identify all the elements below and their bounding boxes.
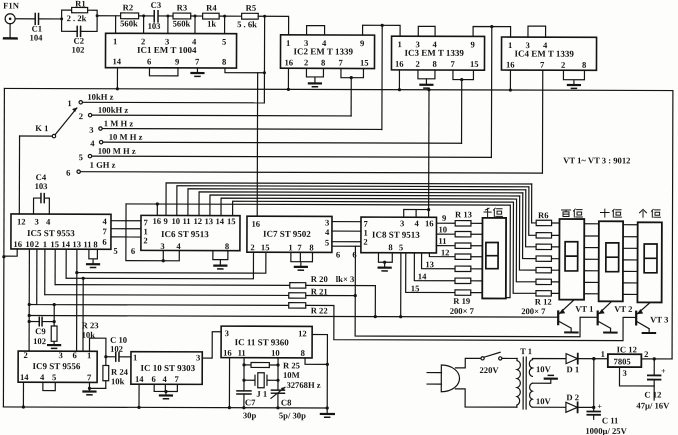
wire IC5 pin4 to IC6 pin7: [111, 220, 141, 222]
wire bundle vertical to DS1 common: [506, 205, 510, 298]
IC8 ST9513: [361, 217, 437, 253]
wire main rail y89.5: [4, 88, 672, 90]
svg-text:IC9 ST 9556: IC9 ST 9556: [33, 361, 81, 371]
svg-text:9: 9: [442, 213, 446, 223]
svg-text:10: 10: [438, 224, 447, 234]
svg-text:2: 2: [561, 60, 565, 70]
svg-text:15: 15: [411, 283, 420, 293]
svg-text:16: 16: [284, 57, 293, 67]
svg-text:D 1: D 1: [567, 364, 580, 374]
wire R22 to VT3 base: [306, 305, 637, 340]
resistor R17: [455, 266, 471, 271]
wire R3 to R4: [191, 15, 203, 18]
wire IC11 pin10 vertical: [276, 358, 279, 390]
svg-text:R5: R5: [246, 3, 257, 13]
wire R2 to C3: [139, 14, 154, 17]
svg-text:14: 14: [215, 216, 224, 226]
wire IC1 pin8 to node 264: [225, 68, 266, 74]
svg-text:5 . 6k: 5 . 6k: [237, 19, 257, 29]
wire IC2 pins7-15 bracket: [341, 68, 364, 79]
wire plug to switch: [456, 358, 481, 368]
wire bundle vertical to R6 row3: [526, 190, 537, 247]
svg-text:8: 8: [222, 57, 227, 67]
ground (IC10): [160, 395, 172, 398]
ground (IC3): [420, 85, 432, 88]
wire IC6 pin13 staircase: [210, 195, 520, 217]
wire row 273 (IC5.13 to IC7.15): [77, 252, 266, 273]
wire IC6 pin16 bus line: [126, 202, 510, 216]
wire IC11 pin11 vertical: [242, 358, 245, 391]
label gewei: [640, 209, 661, 217]
crystal J1 32768Hz: [244, 373, 278, 399]
wire segment bus DS2-DS3: [584, 224, 599, 294]
capacitor C8 5p/30p trimmer: [271, 387, 306, 420]
wire IC7 pin4 to IC8 pin1: [332, 230, 361, 232]
transformer T1: [517, 346, 533, 409]
display DS4 gewei (ones): [637, 222, 661, 302]
svg-text:4: 4: [90, 138, 95, 148]
wire C3 to R3: [158, 14, 173, 17]
resistor R14: [455, 231, 471, 236]
wire segment bus DS3-DS4: [623, 225, 638, 295]
wire bundle vertical to R6 row4: [523, 193, 537, 259]
svg-text:14: 14: [112, 56, 121, 66]
svg-text:K 1: K 1: [35, 123, 48, 133]
svg-text:13: 13: [72, 239, 81, 249]
wire IC7 pin3 to IC8 pin7: [332, 221, 361, 223]
svg-text:10V: 10V: [536, 396, 552, 406]
svg-text:VT 2: VT 2: [614, 304, 632, 314]
svg-text:D 2: D 2: [566, 392, 579, 402]
resistor R11: [536, 279, 551, 284]
svg-text:IC5 ST 9553: IC5 ST 9553: [27, 228, 75, 238]
capacitor C1 104: [30, 14, 44, 43]
wire R1 box to R2 / top rail y16.5: [96, 14, 121, 17]
svg-text:T 1: T 1: [520, 346, 532, 356]
wire IC7 pin5 to IC8 pin2: [332, 241, 361, 243]
wire secondary top to D1: [532, 359, 566, 360]
svg-text:11: 11: [238, 348, 246, 358]
diode D1: [566, 354, 579, 375]
regulator IC12 7805: [600, 344, 648, 378]
IC7 ST9502: [247, 216, 332, 252]
switch K1 arm: [55, 107, 77, 134]
svg-text:R1: R1: [75, 0, 86, 9]
svg-text:103: 103: [35, 181, 48, 191]
capacitor C12 47u/16V: [636, 359, 670, 411]
svg-text:14: 14: [135, 374, 144, 384]
svg-text:6: 6: [73, 350, 78, 360]
terminal VT3 collector: [643, 332, 655, 334]
svg-text:12: 12: [441, 247, 450, 257]
display DS2 baiwei (hundreds): [559, 219, 584, 300]
svg-text:R 13: R 13: [455, 209, 472, 219]
wire left border: [3, 88, 4, 406]
switch contact 1: [67, 98, 82, 108]
svg-text:2: 2: [24, 350, 28, 360]
svg-text:8: 8: [582, 60, 587, 70]
svg-text:15: 15: [50, 239, 59, 249]
wire 7805 pin2 to +5V border: [641, 357, 672, 360]
resistor R24 10k: [103, 365, 129, 388]
svg-text:16: 16: [223, 348, 232, 358]
svg-text:VT 3: VT 3: [650, 314, 668, 324]
wire IC8 pins3-4-16 bracket: [404, 208, 431, 217]
svg-text:220V: 220V: [480, 365, 500, 375]
switch contact 2: [79, 111, 92, 121]
svg-text:IC2 EM T 1339: IC2 EM T 1339: [294, 46, 354, 56]
node 100MHz line: [92, 146, 492, 158]
wire FIN to C1: [15, 18, 34, 20]
wire IC3 pins2-8 bracket: [418, 70, 435, 84]
wire bundle vertical to R6 row1: [532, 184, 537, 223]
wire IC1 pin14 to rail: [116, 68, 119, 91]
wire IC3 pins 3-4 bracket: [418, 26, 435, 36]
wire branch down to IC9 pin1 area: [81, 277, 84, 352]
wire IC9 pins4-5 bracket: [43, 382, 55, 390]
svg-text:10V: 10V: [536, 364, 552, 374]
svg-text:1 M H z: 1 M H z: [104, 118, 134, 128]
capacitor C3 103: [148, 0, 162, 31]
IC10 ST9303: [131, 352, 202, 385]
svg-text:VT 1: VT 1: [575, 304, 593, 314]
svg-text:200× 7: 200× 7: [521, 306, 546, 316]
svg-text:12: 12: [17, 216, 26, 226]
switch SW 220V: [480, 352, 502, 375]
svg-text:16: 16: [152, 216, 161, 226]
svg-text:2: 2: [79, 111, 83, 121]
wires R13-R19 to display: [471, 223, 483, 292]
resistor R25 10M: [244, 360, 321, 390]
wire IC5 pin6 to IC6 pin2: [111, 236, 141, 238]
resistor R6: [536, 210, 551, 226]
ground (IC9 pin7): [83, 391, 95, 394]
svg-text:102: 102: [110, 344, 123, 354]
wire IC2 pin1 to node 264: [265, 16, 289, 35]
svg-text:3: 3: [400, 218, 404, 228]
svg-text:200× 7: 200× 7: [450, 306, 475, 316]
wire IC3 pins7-15 bracket: [453, 70, 474, 81]
resistor R23 10k: [51, 303, 98, 345]
resistor R2 560k: [120, 2, 139, 28]
wire IC8 pin13 step: [422, 253, 456, 270]
resistor R20 1k: [55, 273, 354, 288]
svg-text:6: 6: [66, 168, 71, 178]
wire IC11 pin16 to bottom rail: [228, 358, 231, 410]
svg-text:32768H z: 32768H z: [286, 380, 320, 390]
svg-text:5: 5: [325, 237, 329, 247]
label baiwei: [562, 209, 583, 217]
svg-text:8: 8: [309, 242, 314, 252]
svg-text:8: 8: [225, 241, 230, 251]
svg-text:IC6 ST 9513: IC6 ST 9513: [161, 229, 209, 239]
svg-text:15: 15: [227, 216, 236, 226]
svg-text:47µ/ 16V: 47µ/ 16V: [636, 400, 670, 410]
wire bundle vertical to R6 row6: [516, 199, 536, 282]
svg-text:1: 1: [286, 38, 290, 48]
display DS3 shiwei (tens): [599, 221, 623, 301]
label qianwei: [484, 208, 502, 216]
resistor R5 5.6k: [237, 3, 258, 30]
resistor R1 2.2k with C2 box: [62, 0, 98, 31]
svg-text:30p: 30p: [243, 410, 257, 420]
svg-text:104: 104: [30, 33, 44, 43]
wire IC2 pin16 to rail: [287, 68, 290, 91]
svg-text:1: 1: [601, 349, 605, 359]
svg-text:C7: C7: [245, 397, 256, 407]
wire IC6 pin11 staircase: [188, 189, 526, 217]
wire IC5 pin14 down to row 279: [65, 249, 67, 278]
IC5 ST9553: [11, 214, 111, 249]
ground (bottom rail): [321, 408, 334, 417]
terminal VT2 collector: [604, 332, 616, 334]
wire plug to transformer bottom: [455, 389, 517, 407]
svg-text:3: 3: [622, 368, 626, 378]
wire IC5 pin15 down to row R20: [54, 249, 56, 284]
wire IC1 pins 6-9 bracket: [149, 68, 178, 76]
svg-text:7: 7: [297, 242, 302, 252]
svg-text:7: 7: [195, 57, 200, 67]
svg-text:14: 14: [61, 239, 70, 249]
node 100kHz line: [92, 105, 351, 116]
wire IC8 pin15 step: [406, 253, 455, 294]
wire node 381.6 down to K1 line3: [381, 25, 383, 129]
svg-text:3: 3: [89, 125, 93, 135]
svg-text:R 22: R 22: [311, 305, 328, 315]
svg-text:9: 9: [360, 38, 364, 48]
wire IC2 pins2-8 bracket: [306, 68, 323, 83]
svg-text:lk× 3: lk× 3: [336, 274, 355, 284]
svg-text:100kH z: 100kH z: [98, 105, 129, 115]
svg-text:13: 13: [425, 259, 434, 269]
svg-text:1: 1: [43, 239, 47, 249]
svg-text:3: 3: [59, 350, 63, 360]
wire IC4 pin16 to rail: [509, 70, 512, 92]
svg-text:6: 6: [336, 249, 341, 259]
display DS1 qianwei (thousands): [482, 218, 506, 299]
ground (centre tap): [545, 375, 557, 378]
wire IC5 pin2 down to row R22: [36, 249, 38, 304]
wire D2 to node: [578, 406, 596, 409]
wire bottom rail: [3, 407, 327, 408]
text VT1~VT3 9012: [563, 155, 630, 165]
wire IC7 pins1-7-8 bracket: [291, 252, 313, 266]
wire IC6 pin8 bracket: [213, 251, 228, 266]
svg-text:IC1 EM T 1004: IC1 EM T 1004: [137, 45, 197, 55]
svg-text:4: 4: [102, 216, 107, 226]
svg-text:7: 7: [540, 60, 545, 70]
resistor R15: [455, 243, 471, 248]
ground (IC2): [309, 83, 321, 86]
svg-text:IC 12: IC 12: [617, 344, 637, 354]
svg-text:12: 12: [298, 328, 307, 338]
wire IC8 pin16 up to rail: [427, 88, 431, 217]
svg-text:7: 7: [87, 372, 92, 382]
wire row 279 (IC5.14 to IC7.2): [66, 252, 253, 279]
svg-text:R2: R2: [123, 2, 134, 12]
IC6 ST9513: [141, 215, 240, 251]
wire IC8 pin11 row: [436, 236, 455, 246]
svg-text:16: 16: [425, 218, 434, 228]
wire IC2 pins 3-4 bracket: [307, 26, 325, 35]
svg-text:15: 15: [470, 59, 479, 69]
svg-text:7: 7: [450, 59, 455, 69]
wire C1 to R1 box: [39, 17, 64, 20]
svg-text:8: 8: [388, 242, 393, 252]
wire secondary centre tap to ground: [532, 379, 550, 383]
wire IC5 pin13 down (to IC9): [75, 249, 79, 351]
IC11 ST9360: [221, 326, 312, 358]
svg-text:5: 5: [113, 246, 117, 256]
wire IC11 pin12 loop down: [312, 335, 329, 410]
ground (IC7): [295, 267, 307, 270]
resistor R10: [536, 267, 551, 272]
svg-text:F1N: F1N: [3, 0, 20, 10]
node 1MHz line: [102, 118, 382, 129]
svg-text:2: 2: [35, 239, 39, 249]
wire bundle vertical to R6 row2: [529, 187, 537, 236]
svg-text:R6: R6: [538, 210, 549, 220]
svg-text:16: 16: [395, 59, 404, 69]
transistor VT1: [558, 300, 593, 332]
ground (IC6): [214, 266, 226, 269]
wire IC3 pin16 to rail: [398, 70, 401, 91]
svg-text:10: 10: [171, 216, 180, 226]
svg-text:11: 11: [438, 236, 446, 246]
wire IC11 pin8: [305, 358, 327, 364]
wire node 461 down to K1 line4: [461, 80, 463, 144]
svg-text:7805: 7805: [614, 356, 631, 366]
svg-text:103: 103: [148, 21, 161, 31]
wire IC6 pin10 staircase: [177, 186, 529, 217]
svg-text:5: 5: [79, 152, 83, 162]
svg-text:9: 9: [163, 216, 167, 226]
svg-text:14: 14: [20, 372, 29, 382]
svg-text:3: 3: [325, 217, 329, 227]
svg-text:5: 5: [399, 242, 403, 252]
svg-text:IC3 EM T 1339: IC3 EM T 1339: [405, 48, 465, 58]
svg-text:2: 2: [304, 57, 308, 67]
svg-text:R3: R3: [177, 2, 188, 12]
ground (IC4): [568, 85, 580, 88]
svg-text:10k: 10k: [111, 376, 125, 386]
wire right border (+5V): [671, 91, 674, 359]
svg-text:102: 102: [72, 45, 85, 55]
svg-text:7: 7: [174, 374, 179, 384]
svg-text:3: 3: [34, 217, 38, 227]
svg-text:6: 6: [102, 237, 107, 247]
wire IC9 pin1 to R24/C10 node: [89, 338, 107, 365]
svg-text:IC 10 ST 9303: IC 10 ST 9303: [141, 363, 196, 373]
svg-text:12: 12: [193, 216, 202, 226]
wire IC10 pin3 to IC11 pin3: [202, 332, 221, 358]
switch contact 6: [66, 168, 80, 178]
wire node 264 vertical (10kHz net): [263, 16, 265, 102]
svg-text:IC7 ST 9502: IC7 ST 9502: [263, 229, 311, 239]
svg-text:11: 11: [182, 216, 190, 226]
svg-text:16: 16: [13, 239, 22, 249]
svg-text:IC4 EM T 1339: IC4 EM T 1339: [515, 49, 575, 59]
wire IC10 pin14 to bottom rail: [137, 384, 140, 409]
wire IC8 pin12 step: [429, 247, 455, 257]
text 10V lower: [536, 396, 552, 406]
wire bundle vertical to R6 row5: [519, 196, 536, 270]
svg-text:11: 11: [83, 239, 91, 249]
node 1GHz line: [80, 160, 542, 173]
svg-text:+: +: [597, 402, 602, 411]
transistor VT2: [598, 301, 633, 332]
ground (IC5): [87, 264, 99, 267]
resistor R22: [29, 302, 327, 316]
svg-text:+: +: [661, 367, 666, 376]
op-amp U IC1 EMT1004: [105, 33, 236, 68]
resistor R3 560k: [173, 2, 191, 28]
wire IC8 pin9 row: [436, 213, 455, 223]
capacitor C10 102: [106, 335, 131, 361]
resistor R9: [536, 256, 551, 261]
svg-text:R 20: R 20: [311, 274, 328, 284]
switch contact 3: [89, 125, 102, 135]
svg-text:1: 1: [508, 40, 512, 50]
wire R21/pin6 net to VT2 base: [306, 246, 598, 337]
wire IC1 pin8 branch down to IC7 pin16: [256, 73, 258, 216]
capacitor C9 102: [27, 317, 55, 346]
wire R20 to VT1 base net: [306, 285, 377, 318]
wire rectifier node vertical: [593, 359, 595, 408]
svg-text:1: 1: [398, 39, 402, 49]
svg-text:15: 15: [360, 58, 369, 68]
svg-text:3: 3: [196, 353, 200, 363]
wire R4 to R5: [219, 15, 242, 18]
wire IC10 pins6-4-7 bracket: [154, 384, 177, 395]
ground (IC1 pin7): [191, 68, 203, 76]
capacitor C2 102: [72, 26, 85, 54]
ground (IC8): [379, 268, 391, 271]
wire bundle vertical to R6 row7: [513, 202, 536, 293]
wire node 350.8 down to K1 line2: [350, 78, 352, 116]
svg-text:3: 3: [160, 241, 164, 251]
wire IC2 pin9 to IC3 pin1 (1MHz node): [363, 24, 401, 37]
svg-text:C8: C8: [281, 397, 292, 407]
svg-text:IC 11 ST 9360: IC 11 ST 9360: [235, 337, 290, 347]
svg-text:6: 6: [147, 56, 152, 66]
svg-text:8: 8: [321, 57, 326, 67]
svg-text:5: 5: [222, 37, 226, 47]
svg-text:R 19: R 19: [453, 296, 470, 306]
switch K1 common: [20, 123, 56, 138]
resistor R21: [45, 286, 328, 299]
wire IC6 pin9 staircase: [166, 183, 532, 217]
capacitor C4 103: [34, 172, 50, 214]
IC4 EMT1339: [501, 37, 596, 70]
wire switch to transformer: [502, 357, 517, 359]
svg-text:1: 1: [67, 98, 71, 108]
svg-text:5: 5: [52, 372, 56, 382]
capacitor C11 1000u/25V: [585, 402, 627, 435]
svg-text:7: 7: [338, 57, 343, 67]
svg-text:560k: 560k: [173, 18, 191, 28]
wire R5 to node 264: [258, 15, 266, 18]
capacitor C7 30p: [237, 391, 257, 420]
wire IC9 pin7 / R24 bottom: [88, 382, 106, 391]
wire IC9 pin14 to bottom rail: [22, 382, 25, 408]
svg-text:C 12: C 12: [644, 389, 661, 399]
svg-text:7: 7: [102, 226, 107, 236]
svg-text:1: 1: [133, 352, 137, 362]
wire IC6 pin12 staircase: [199, 192, 523, 217]
wire IC6 pin16 loop to pins 3-4: [126, 204, 180, 262]
svg-text:J 1: J 1: [256, 389, 267, 399]
